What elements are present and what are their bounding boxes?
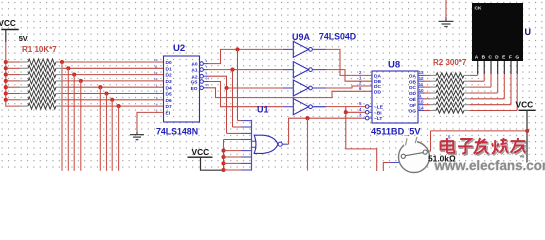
svg-text:VCC: VCC (516, 100, 534, 110)
svg-text:GS: GS (191, 80, 199, 86)
svg-text:F: F (509, 54, 512, 60)
svg-text:A0: A0 (191, 62, 197, 68)
svg-text:74LS04D: 74LS04D (319, 32, 356, 42)
svg-text:www.elecfans.com: www.elecfans.com (434, 158, 545, 173)
svg-text:10: 10 (154, 58, 158, 62)
svg-text:VCC: VCC (0, 19, 16, 28)
svg-text:4: 4 (156, 102, 158, 106)
svg-text:CK: CK (475, 6, 482, 12)
svg-text:A: A (475, 54, 479, 60)
svg-text:~LE: ~LE (374, 105, 384, 111)
svg-text:~BI: ~BI (374, 110, 382, 116)
svg-text:DA: DA (374, 74, 381, 80)
svg-text:B: B (482, 54, 486, 60)
svg-text:11: 11 (419, 82, 424, 87)
svg-text:4511BD_5V: 4511BD_5V (371, 127, 421, 137)
svg-text:R2 300*7: R2 300*7 (433, 58, 467, 67)
svg-text:6: 6 (206, 71, 208, 75)
svg-text:OD: OD (409, 91, 417, 97)
svg-text:9: 9 (206, 59, 208, 63)
svg-text:OC: OC (409, 85, 417, 91)
svg-text:D6: D6 (166, 98, 172, 104)
svg-text:D4: D4 (166, 85, 172, 91)
svg-text:12: 12 (419, 76, 425, 81)
svg-text:3: 3 (156, 96, 158, 100)
svg-text:D3: D3 (166, 79, 172, 85)
svg-text:9: 9 (419, 94, 422, 99)
svg-text:OF: OF (409, 103, 416, 109)
svg-text:U2: U2 (173, 43, 185, 54)
svg-text:15: 15 (419, 100, 425, 105)
svg-text:C: C (488, 54, 492, 60)
svg-text:1: 1 (156, 83, 158, 87)
svg-text:EI: EI (166, 111, 171, 117)
svg-text:EO: EO (191, 86, 198, 92)
svg-text:OE: OE (409, 97, 417, 103)
svg-text:R1 10K*7: R1 10K*7 (22, 45, 57, 54)
svg-text:A1: A1 (191, 68, 197, 74)
svg-text:15: 15 (206, 83, 210, 87)
svg-text:G: G (515, 54, 519, 60)
svg-text:5V: 5V (19, 34, 28, 43)
svg-text:13: 13 (419, 70, 425, 75)
svg-text:DD: DD (374, 89, 381, 95)
svg-text:U9A: U9A (292, 32, 311, 42)
svg-text:74LS148N: 74LS148N (156, 127, 198, 137)
svg-text:DC: DC (374, 84, 381, 90)
svg-text:12: 12 (154, 71, 158, 75)
svg-text:2: 2 (156, 90, 158, 94)
svg-text:D2: D2 (166, 73, 172, 79)
svg-text:DB: DB (374, 79, 381, 85)
svg-text:A2: A2 (191, 74, 197, 80)
svg-text:OA: OA (409, 74, 417, 80)
svg-text:OG: OG (409, 109, 417, 115)
svg-text:10: 10 (419, 88, 425, 93)
svg-text:7: 7 (206, 65, 208, 69)
svg-text:13: 13 (154, 77, 158, 81)
svg-text:D7: D7 (166, 104, 172, 110)
svg-text:U: U (525, 27, 532, 37)
svg-text:~LT: ~LT (374, 116, 382, 122)
svg-text:D1: D1 (166, 66, 172, 72)
svg-text:U8: U8 (388, 60, 400, 71)
svg-text:VCC: VCC (192, 147, 210, 157)
svg-text:14: 14 (206, 77, 210, 81)
svg-text:14: 14 (419, 105, 425, 110)
svg-text:D5: D5 (166, 92, 172, 98)
svg-text:D0: D0 (166, 60, 172, 66)
svg-text:D: D (495, 54, 499, 60)
svg-text:OB: OB (409, 79, 417, 85)
svg-text:U1: U1 (257, 105, 269, 115)
svg-text:11: 11 (154, 65, 158, 69)
